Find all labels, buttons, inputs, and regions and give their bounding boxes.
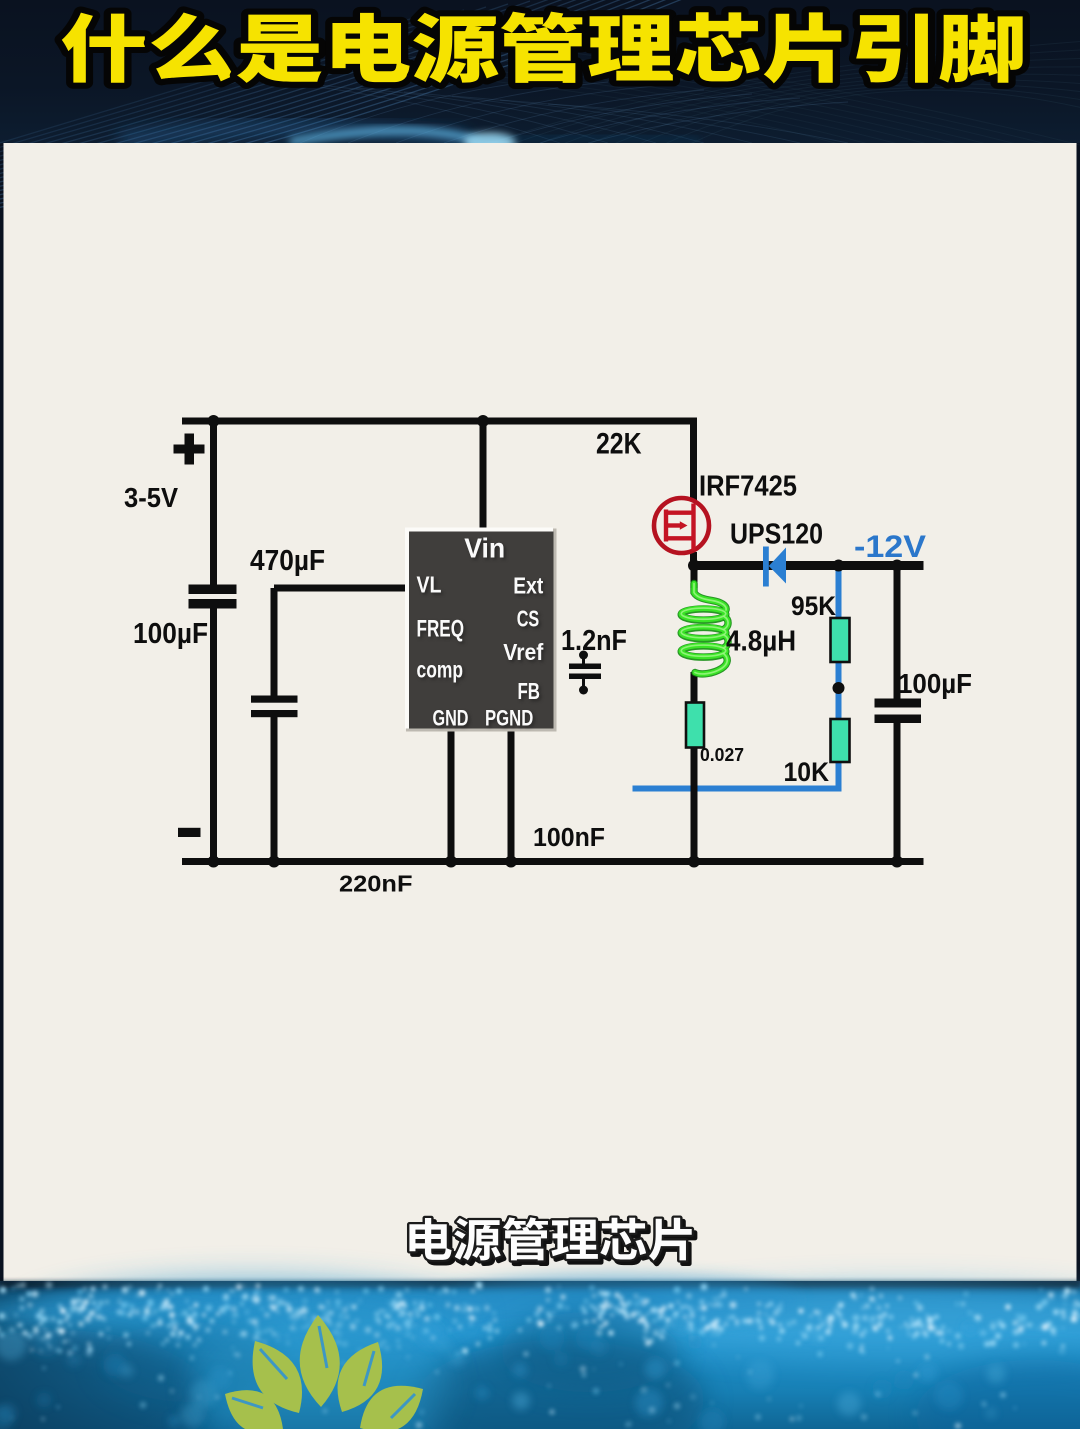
svg-text:PGND: PGND [485, 706, 533, 731]
svg-text:470µF: 470µF [250, 545, 325, 577]
svg-text:FB: FB [518, 678, 541, 704]
svg-text:CS: CS [517, 606, 540, 632]
svg-text:-12V: -12V [854, 528, 926, 564]
svg-text:22K: 22K [596, 428, 642, 461]
svg-text:4.8µH: 4.8µH [726, 626, 796, 658]
svg-text:IRF7425: IRF7425 [699, 471, 797, 503]
svg-text:0.027: 0.027 [700, 745, 744, 765]
svg-text:GND: GND [433, 706, 469, 731]
svg-text:Vref: Vref [503, 639, 543, 665]
svg-text:100nF: 100nF [533, 824, 605, 852]
svg-text:FREQ: FREQ [417, 616, 465, 643]
svg-text:10K: 10K [784, 757, 830, 787]
svg-text:100µF: 100µF [133, 618, 208, 650]
svg-text:1.2nF: 1.2nF [561, 625, 627, 657]
svg-text:comp: comp [417, 657, 464, 683]
svg-text:Vin: Vin [464, 533, 505, 564]
svg-text:UPS120: UPS120 [730, 519, 823, 551]
svg-text:100µF: 100µF [898, 668, 972, 699]
svg-text:95K: 95K [791, 591, 836, 621]
svg-text:VL: VL [417, 572, 442, 598]
svg-text:220nF: 220nF [339, 871, 413, 897]
svg-text:Ext: Ext [513, 573, 543, 599]
svg-text:3-5V: 3-5V [124, 482, 178, 513]
